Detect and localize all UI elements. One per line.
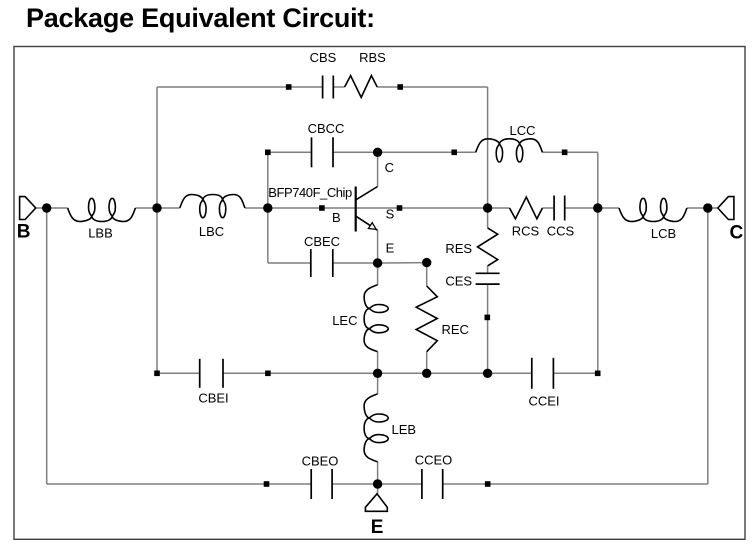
wire inner emitter rail to LEB (377, 373, 379, 394)
terminal square bottom rail right (485, 481, 491, 487)
capacitor CCS (553, 196, 555, 221)
wire top rail (B net to collector column) (157, 86, 323, 88)
terminal square bottom rail left (264, 481, 270, 487)
svg-text:CBEI: CBEI (198, 391, 228, 406)
wire vertical B junction down to bottom rail (46, 208, 48, 484)
svg-text:LCB: LCB (651, 226, 676, 241)
terminal square top rail left (286, 84, 292, 90)
wire inner emitter rail middle (268, 372, 488, 374)
junction at B terminal (42, 203, 51, 212)
wire vertical LBB junction column (156, 87, 158, 373)
svg-text:CBS: CBS (310, 50, 337, 65)
wire LBC to base of transistor (245, 207, 356, 209)
wire LCB to C terminal (687, 207, 718, 209)
capacitor CES (476, 272, 500, 274)
wire RCS-CCS segment (488, 207, 510, 209)
svg-text:RES: RES (445, 241, 472, 256)
transistor Q1 emitter lead (356, 216, 378, 230)
wire REC column top (426, 263, 428, 286)
junction node S column (483, 203, 492, 212)
wire bottom rail left (47, 483, 312, 485)
svg-text:REC: REC (442, 322, 469, 337)
terminal square inner rail right (595, 371, 601, 377)
wire inner emitter rail left (CBEI) (157, 372, 200, 374)
capacitor CBEI (199, 359, 201, 388)
junction REC bottom (422, 369, 431, 378)
svg-text:LEC: LEC (332, 313, 357, 328)
wire CES to inner emitter rail (487, 284, 489, 373)
svg-text:LBC: LBC (199, 224, 224, 239)
inductor LEC coil (364, 285, 388, 352)
wire CCS junction down to CCEI (597, 208, 599, 373)
wire vertical from top rail to S junction (487, 87, 489, 208)
wire LBB to LBC (135, 207, 179, 209)
svg-text:B: B (332, 210, 341, 225)
terminal square collector row mid (451, 150, 457, 156)
port C terminal symbol (718, 197, 734, 220)
wire CCS junction to LCB (598, 207, 619, 209)
junction LBB-LBC (152, 203, 161, 212)
inductor LCC coil (476, 139, 543, 162)
wire collector branch vertical (377, 152, 379, 186)
wire RES to CES (487, 266, 489, 273)
wire E terminal stub (377, 484, 379, 494)
capacitor CCEO (421, 469, 423, 499)
junction CES bottom inner rail (483, 369, 492, 378)
svg-text:BFP740F_Chip: BFP740F_Chip (268, 185, 352, 200)
transistor Q1 base bar (355, 187, 357, 232)
terminal square below CES (485, 315, 491, 321)
wire emitter node to REC top (378, 262, 427, 264)
wire transistor bar to S node junction (356, 207, 488, 209)
junction E terminal bottom rail (373, 479, 382, 488)
svg-text:LCC: LCC (509, 123, 535, 138)
resistor REC (416, 286, 437, 352)
terminal square collector row left (265, 150, 271, 156)
wire emitter branch vertical to E node (377, 230, 379, 263)
wire LEB to bottom rail (377, 462, 379, 484)
wire collector row left segment (268, 151, 312, 153)
wire E node to LEC (377, 263, 379, 285)
junction CCS-LCB (593, 203, 602, 212)
svg-text:CBEO: CBEO (302, 454, 339, 469)
svg-text:E: E (386, 241, 395, 256)
junction node E (373, 258, 382, 267)
inductor LBC coil (180, 195, 245, 218)
terminal square collector row right (562, 150, 568, 156)
wire emitter row CBEC (268, 262, 311, 264)
wire collector row right segment (378, 151, 476, 153)
junction REC top (422, 258, 431, 267)
svg-text:RCS: RCS (512, 224, 540, 239)
junction LCB-C terminal (703, 203, 712, 212)
svg-text:CBCC: CBCC (308, 121, 345, 136)
wire base rail B terminal to LBB (36, 207, 68, 209)
junction node C (373, 148, 382, 157)
inductor LEB coil (364, 394, 388, 462)
terminal square inner rail mid (265, 371, 271, 377)
capacitor CBEC (310, 249, 312, 277)
svg-text:S: S (386, 207, 395, 222)
svg-text:LEB: LEB (392, 422, 417, 437)
inductor LBB coil (68, 198, 136, 221)
junction LEC-LEB inner rail (373, 369, 382, 378)
wire bottom rail right (443, 483, 708, 485)
svg-text:E: E (371, 517, 384, 538)
terminal square base B pin (319, 205, 325, 211)
junction LBC-base column (263, 203, 272, 212)
svg-text:C: C (730, 223, 744, 244)
svg-text:CCS: CCS (547, 224, 575, 239)
wire inner emitter rail right (CCEI) (488, 372, 532, 374)
svg-text:CCEO: CCEO (415, 453, 453, 468)
terminal square inner rail left (154, 371, 160, 377)
svg-text:B: B (17, 222, 31, 243)
capacitor CBEO (310, 469, 312, 499)
resistor RBS (345, 76, 378, 98)
resistor RES (478, 228, 498, 266)
transistor Q1 emitter arrow (368, 223, 376, 230)
capacitor CCEI (531, 358, 533, 389)
svg-text:RBS: RBS (359, 50, 386, 65)
port B terminal symbol (20, 197, 36, 220)
svg-text:CCEI: CCEI (528, 394, 559, 409)
wire vertical CBCC to CBEC column (267, 152, 269, 263)
wire C junction down to bottom rail (707, 208, 709, 484)
svg-text:LBB: LBB (88, 226, 113, 241)
wire LEC to inner emitter rail (377, 352, 379, 374)
wire REC column bottom (426, 352, 428, 374)
capacitor CBS (322, 76, 324, 99)
transistor Q1 collector lead (356, 187, 378, 200)
resistor RCS (510, 197, 543, 219)
wire bottom rail CBEO to E terminal (332, 483, 378, 485)
wire vertical collector-row corner down to CCS junction (597, 152, 599, 208)
wire bottom rail E terminal to CCEO (378, 483, 422, 485)
port E terminal symbol (365, 494, 387, 512)
terminal square substrate S pin (397, 205, 403, 211)
svg-text:CES: CES (445, 274, 472, 289)
wire S junction to RES (487, 208, 489, 228)
svg-text:CBEC: CBEC (304, 234, 340, 249)
inductor LCB coil (619, 198, 687, 221)
capacitor CBCC (311, 137, 313, 167)
terminal square top rail right (397, 84, 403, 90)
svg-text:C: C (385, 160, 394, 175)
